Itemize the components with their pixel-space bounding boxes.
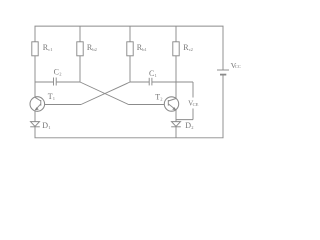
svg-text:c1: c1 xyxy=(48,47,52,52)
wire col4 collector segment xyxy=(175,56,177,99)
svg-text:CE: CE xyxy=(193,102,199,107)
label D1 xyxy=(42,121,50,130)
svg-text:2: 2 xyxy=(59,72,61,77)
wire right rail lower xyxy=(222,76,224,138)
wire T1 emitter segment xyxy=(34,111,36,122)
svg-text:2: 2 xyxy=(160,96,162,101)
svg-text:b1: b1 xyxy=(142,47,147,52)
transistor T1 xyxy=(30,97,45,112)
label V_CC xyxy=(231,61,241,70)
wire col4 top stem xyxy=(175,26,177,42)
label Rc2 xyxy=(183,43,193,52)
resistor Rb2 xyxy=(77,42,83,56)
svg-text:2: 2 xyxy=(191,125,193,130)
svg-text:C: C xyxy=(149,69,154,78)
battery Vcc long plate xyxy=(217,69,229,71)
wire D2 to bottom rail xyxy=(175,127,177,138)
wire C1 left lead xyxy=(130,81,149,83)
svg-text:c2: c2 xyxy=(189,47,193,52)
wire cross coupling col2 to T2 base xyxy=(80,82,164,105)
capacitor C2 xyxy=(54,78,57,86)
wire col2 lower stem xyxy=(79,56,81,82)
resistor Rc1 xyxy=(32,42,38,56)
wire C2 right lead xyxy=(56,81,80,83)
wire C1 right lead xyxy=(152,81,176,83)
svg-text:1: 1 xyxy=(53,96,55,101)
label C2 xyxy=(54,68,62,77)
label C1 xyxy=(149,69,157,78)
wire Vce bracket bottom tick xyxy=(176,119,193,121)
svg-text:1: 1 xyxy=(48,125,50,130)
label Vce xyxy=(188,100,199,108)
label T2 xyxy=(155,92,162,101)
wire col1 top stem xyxy=(34,26,36,42)
svg-text:CC: CC xyxy=(235,64,241,69)
wire T2 emitter segment xyxy=(175,110,177,122)
resistor Rb1 xyxy=(127,42,133,56)
label Rb2 xyxy=(87,43,97,52)
svg-text:C: C xyxy=(54,68,59,77)
transistor T2 xyxy=(164,97,178,111)
label Rb1 xyxy=(137,43,147,52)
capacitor C1 xyxy=(149,78,152,86)
wire top rail xyxy=(35,25,224,27)
wire col2 top stem xyxy=(79,26,81,42)
svg-text:1: 1 xyxy=(155,73,157,78)
label Rc1 xyxy=(43,43,53,52)
wire Vce bracket upper vertical xyxy=(192,82,194,98)
wire col3 top stem xyxy=(129,26,131,42)
wire bottom rail xyxy=(35,137,224,139)
svg-text:b2: b2 xyxy=(92,47,97,52)
wire col1 collector segment xyxy=(34,56,36,97)
diode D2 xyxy=(171,122,181,127)
label D2 xyxy=(185,121,193,130)
label T1 xyxy=(48,92,55,101)
wire Vce bracket lower vertical xyxy=(192,109,194,120)
wire C2 left lead xyxy=(35,81,54,83)
wire cross coupling col3 to T1 base xyxy=(45,82,130,105)
resistor Rc2 xyxy=(173,42,179,56)
wire Vce bracket top tick xyxy=(176,81,193,83)
wire D1 to bottom rail xyxy=(34,127,36,138)
diode D1 xyxy=(30,122,40,127)
wire col3 lower stem xyxy=(129,56,131,82)
wire right rail upper (Vcc supply) xyxy=(222,26,224,70)
battery Vcc short plate xyxy=(220,74,226,76)
